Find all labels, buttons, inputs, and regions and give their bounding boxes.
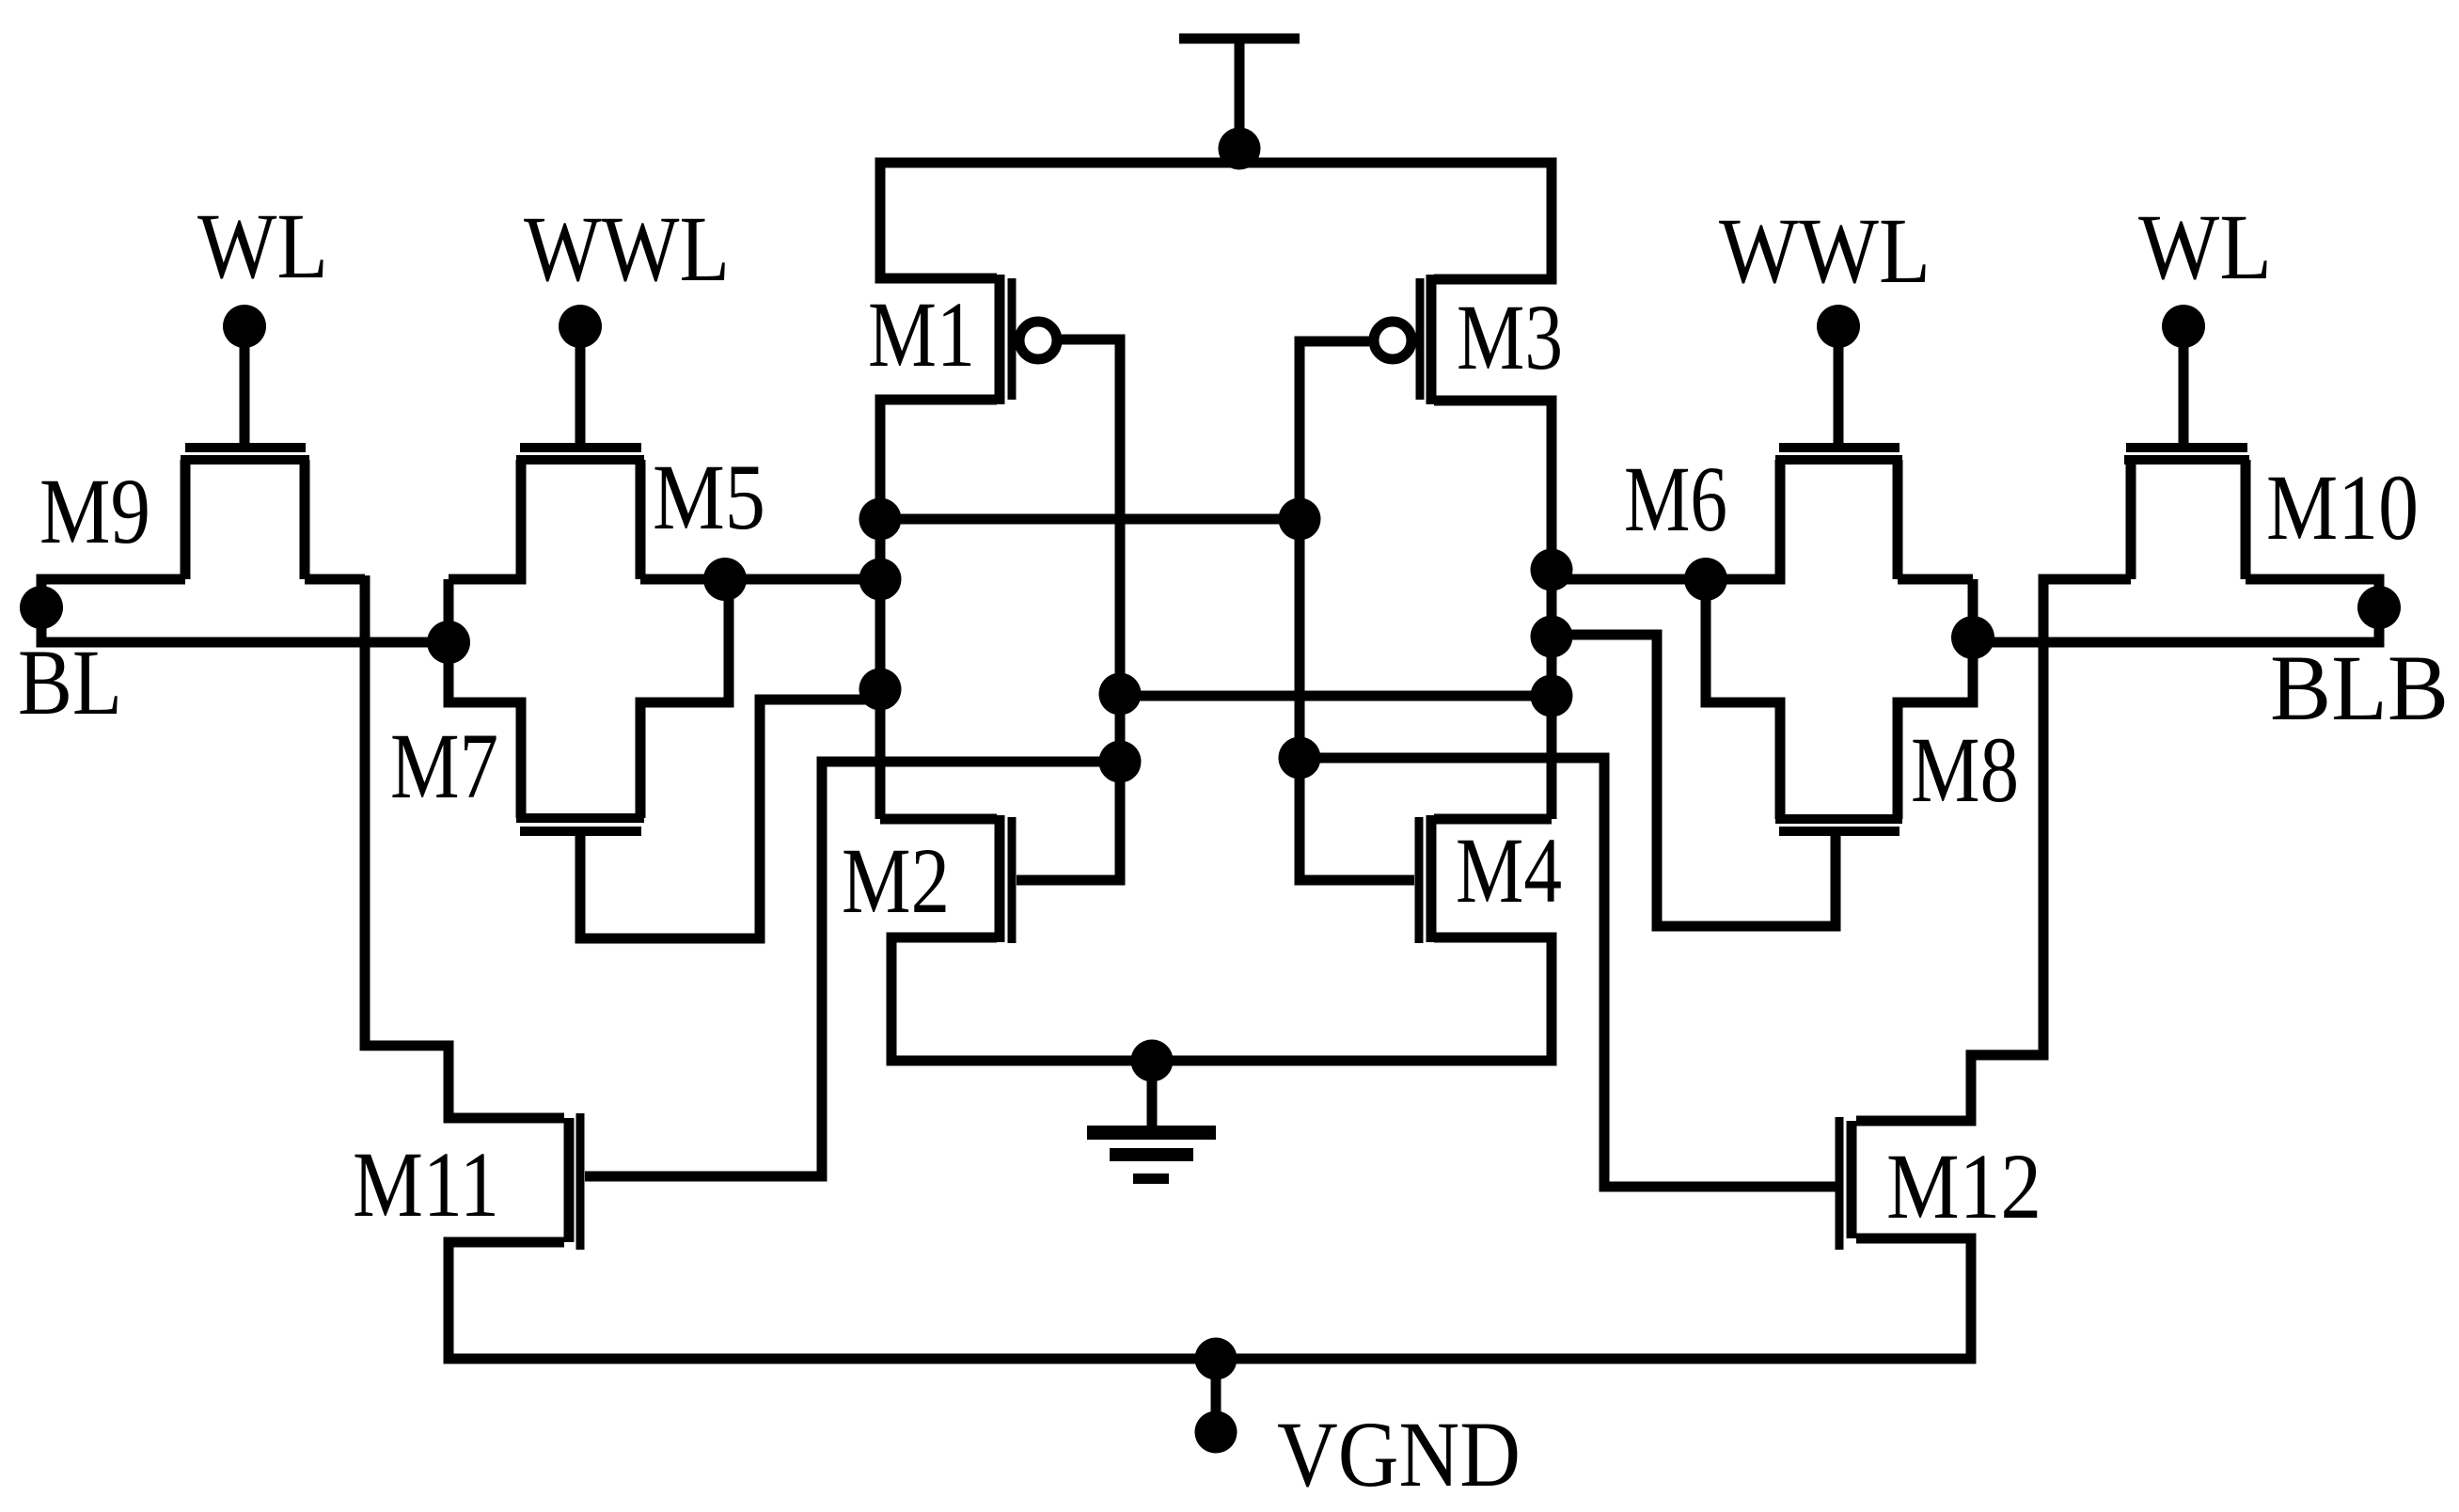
svg-text:M3: M3 [1457,285,1563,389]
svg-text:WL: WL [2138,195,2272,299]
svg-text:BLB: BLB [2270,636,2449,740]
svg-text:WWL: WWL [1719,198,1931,303]
svg-text:M9: M9 [39,459,150,563]
svg-text:VGND: VGND [1277,1402,1521,1506]
svg-text:M6: M6 [1624,447,1727,551]
svg-text:WL: WL [197,194,328,298]
svg-text:M7: M7 [390,714,498,818]
svg-text:M11: M11 [353,1132,499,1236]
svg-text:M1: M1 [868,282,975,386]
svg-text:M2: M2 [842,828,950,933]
svg-text:BL: BL [18,630,122,734]
svg-text:M12: M12 [1886,1134,2041,1238]
svg-text:WWL: WWL [524,197,730,301]
svg-text:M8: M8 [1911,717,2019,822]
svg-text:M10: M10 [2266,455,2419,559]
svg-text:M4: M4 [1456,818,1562,922]
svg-text:M5: M5 [653,445,765,549]
